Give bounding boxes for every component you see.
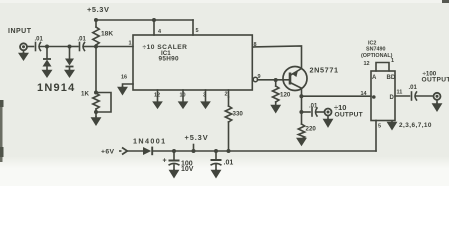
svg-text:12: 12 bbox=[154, 93, 160, 99]
capacitor C3 .01 bbox=[311, 108, 313, 116]
svg-text:18K: 18K bbox=[101, 31, 113, 38]
ground C6 bbox=[212, 169, 220, 177]
ground IC1 pin12 bbox=[154, 102, 162, 108]
ground D2 bbox=[66, 70, 74, 77]
capacitor C4 .01 bbox=[411, 92, 413, 100]
svg-text:12: 12 bbox=[364, 61, 370, 67]
wire C3 to /10 output jack bbox=[317, 111, 325, 113]
svg-text:5: 5 bbox=[378, 124, 381, 130]
wire IC1 pin3 stub bbox=[205, 90, 207, 103]
wire out node down bbox=[301, 96, 303, 112]
capacitor C1 .01 bbox=[35, 43, 37, 51]
input jack J1 bbox=[20, 43, 27, 50]
wire IC2 pin5 to rail bbox=[375, 121, 377, 152]
ground 220 bbox=[298, 139, 306, 145]
wire node A to C2 bbox=[70, 46, 79, 48]
node rail electrolytic bbox=[172, 149, 176, 153]
svg-text:330: 330 bbox=[233, 111, 244, 118]
node IC2 pin14 internal bbox=[372, 95, 376, 99]
wire 18K to input node bbox=[95, 45, 97, 47]
node bias junction bbox=[94, 45, 98, 49]
svg-text:5: 5 bbox=[196, 28, 199, 34]
wire electrolytic drop bbox=[173, 151, 175, 160]
svg-text:3: 3 bbox=[203, 93, 206, 99]
svg-text:120: 120 bbox=[280, 92, 291, 99]
ground IC2 reset pins bbox=[388, 121, 396, 130]
wire IC1 pin16 stub bbox=[123, 84, 134, 86]
diode D2 1N914 (pointing down) bbox=[65, 59, 74, 67]
IC1 pin9 bubble bbox=[253, 77, 257, 81]
node collector junction bbox=[299, 94, 303, 98]
ground /10 jack bbox=[324, 119, 332, 127]
transistor Q1 2N5771 bbox=[283, 67, 307, 91]
wire /10 jack ground stub bbox=[327, 116, 329, 119]
IC1 box 95H90 bbox=[133, 35, 252, 90]
/10 output jack J2 bbox=[325, 109, 332, 116]
svg-text:INPUT: INPUT bbox=[8, 28, 32, 35]
+6V connector tick bbox=[119, 150, 122, 152]
wire C6 drop bbox=[215, 151, 217, 159]
node top rail junction bbox=[94, 18, 98, 22]
wire +5.3V rail down to 18K bbox=[95, 20, 97, 27]
svg-text:1N4001: 1N4001 bbox=[133, 137, 167, 146]
wire IC2 pin11 to C4 bbox=[395, 95, 410, 97]
svg-text:+5.3V: +5.3V bbox=[87, 5, 110, 14]
wire +5.3V top rail horizontal bbox=[96, 19, 193, 21]
svg-text:9: 9 bbox=[258, 74, 261, 80]
svg-text:14: 14 bbox=[361, 91, 368, 97]
wire IC1 pin12 stub bbox=[157, 90, 159, 103]
node pin4 junction bbox=[152, 18, 156, 22]
node rail C6 bbox=[214, 149, 218, 153]
ground /100 jack bbox=[433, 103, 441, 111]
svg-text:8: 8 bbox=[254, 42, 257, 48]
wire D3 to rail bbox=[153, 150, 376, 152]
wire electrolytic to ground bbox=[173, 165, 175, 169]
node 1K top bbox=[94, 91, 98, 95]
wire IC1 pin2 drop bbox=[228, 90, 230, 97]
svg-text:1: 1 bbox=[391, 58, 394, 64]
resistor R5 220 bbox=[298, 124, 304, 139]
wire loop around 1K bbox=[96, 93, 111, 113]
wire /100 jack ground stub bbox=[436, 100, 438, 103]
node rail 330 bbox=[227, 149, 231, 153]
wire out node to IC2 pin14 bbox=[302, 95, 372, 97]
wire 330 to bottom rail bbox=[228, 122, 230, 151]
svg-text:95H90: 95H90 bbox=[159, 56, 179, 63]
paper background bbox=[0, 0, 449, 186]
wire IC1 pin8 to transistor emitter bbox=[252, 46, 301, 69]
node input cap junction 1 bbox=[45, 45, 49, 49]
svg-text:+5.3V: +5.3V bbox=[185, 133, 209, 142]
wire 120 to ground bbox=[275, 102, 277, 105]
svg-text:.01: .01 bbox=[409, 85, 418, 91]
diode D1 1N914 (pointing up) bbox=[43, 59, 52, 67]
node 1K bottom bbox=[94, 110, 98, 114]
node input cap junction 2 bbox=[68, 45, 72, 49]
svg-text:.01: .01 bbox=[224, 160, 234, 167]
wire C6 to ground bbox=[215, 165, 217, 170]
svg-text:2N5771: 2N5771 bbox=[310, 66, 339, 75]
svg-text:1K: 1K bbox=[81, 91, 89, 98]
ground input jack bbox=[20, 52, 28, 60]
svg-text:16: 16 bbox=[121, 75, 127, 81]
wire diode D2 drop bbox=[69, 47, 71, 59]
svg-text:.01: .01 bbox=[309, 104, 318, 110]
wire input jack ground stub bbox=[23, 51, 25, 53]
node rail 5.3V tap bbox=[192, 149, 196, 153]
wire C4 to /100 output jack bbox=[416, 95, 433, 97]
diode D3 1N4001 (pointing right) bbox=[143, 147, 152, 156]
svg-text:.01: .01 bbox=[78, 37, 87, 43]
wire +5.3V label tick bbox=[193, 145, 195, 152]
wire base node down to 120 bbox=[275, 80, 277, 86]
capacitor C2 .01 bbox=[79, 43, 81, 51]
svg-text:+: + bbox=[163, 158, 167, 165]
wire bias node down to 1K bbox=[95, 47, 97, 93]
IC2 box SN7490 bbox=[371, 71, 395, 121]
ground IC1 pin3 bbox=[202, 102, 210, 108]
wire node down to 220 bbox=[301, 112, 303, 124]
wire +6V chevron to diode bbox=[127, 150, 143, 152]
ground IC1 pin16 bbox=[119, 86, 127, 94]
wire loop pin12 to pin1 bbox=[376, 63, 389, 72]
resistor R2 1K bbox=[93, 93, 99, 109]
resistor R4 120 bbox=[273, 86, 279, 102]
wire IC1 pin4 riser bbox=[153, 20, 155, 35]
ground 120 bbox=[272, 105, 280, 113]
/100 output jack J3 bbox=[434, 93, 441, 100]
svg-text:10V: 10V bbox=[181, 166, 194, 173]
svg-text:(OPTIONAL): (OPTIONAL) bbox=[361, 53, 393, 59]
wire 220 to ground bbox=[301, 138, 303, 141]
resistor R3 330 bbox=[225, 106, 231, 122]
+6V connector chevron bbox=[122, 148, 127, 155]
ground D1 bbox=[43, 70, 51, 77]
wire D1 to ground bbox=[46, 67, 48, 70]
svg-text:1: 1 bbox=[129, 41, 132, 47]
svg-text:BD: BD bbox=[387, 75, 396, 81]
wire collector down to out node bbox=[301, 88, 303, 96]
node base junction bbox=[274, 78, 278, 82]
svg-text:+6V: +6V bbox=[101, 149, 115, 156]
wire D2 to ground bbox=[69, 67, 71, 70]
wire diode D1 drop bbox=[46, 47, 48, 59]
svg-text:OUTPUT: OUTPUT bbox=[422, 76, 449, 83]
svg-text:220: 220 bbox=[306, 126, 317, 133]
wire node to C3 bbox=[302, 111, 311, 113]
ground 1K bbox=[92, 116, 100, 125]
wire IC1 pin10 stub bbox=[182, 90, 184, 103]
scan artifact top right corner bbox=[442, 0, 449, 3]
svg-text:11: 11 bbox=[397, 90, 403, 96]
wire bias node to IC1 pin1 bbox=[96, 46, 133, 48]
svg-text:.01: .01 bbox=[35, 37, 44, 43]
resistor R1 18K bbox=[93, 27, 99, 45]
svg-text:1N914: 1N914 bbox=[37, 82, 75, 94]
capacitor C6 .01 bbox=[211, 160, 222, 165]
wire input line bbox=[27, 46, 34, 48]
svg-text:10: 10 bbox=[180, 93, 186, 99]
wire C1 to node A bbox=[40, 46, 70, 48]
svg-text:OUTPUT: OUTPUT bbox=[335, 112, 363, 119]
svg-text:2: 2 bbox=[225, 92, 228, 98]
svg-text:A: A bbox=[372, 75, 377, 81]
ground electrolytic bbox=[170, 169, 178, 177]
wire 1K bottom to ground bbox=[95, 109, 97, 116]
capacitor C5 100uF electrolytic bbox=[169, 161, 180, 166]
ground IC1 pin10 bbox=[179, 102, 187, 108]
wire IC1 pin2 to 330 bbox=[228, 97, 230, 106]
svg-text:SN7490: SN7490 bbox=[366, 46, 385, 52]
wire IC1 pin9 to base node bbox=[258, 79, 291, 81]
scan artifact left edge bbox=[0, 100, 3, 162]
wire C2 to bias node bbox=[84, 46, 96, 48]
svg-text:D: D bbox=[390, 95, 395, 101]
svg-text:2,3,6,7,10: 2,3,6,7,10 bbox=[399, 122, 432, 129]
node output junction bbox=[299, 110, 303, 114]
wire IC1 pin5 riser bbox=[192, 20, 194, 35]
